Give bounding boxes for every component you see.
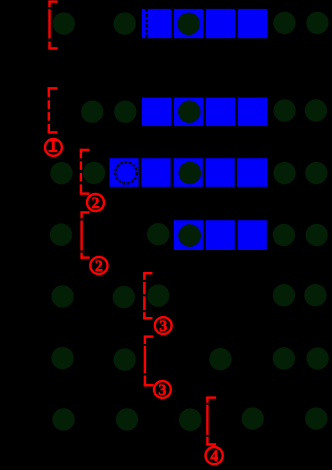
bracket B7 top tick [206, 396, 216, 398]
row 5 node c2 [113, 286, 135, 308]
bracket B1 vertical [48, 1, 50, 50]
bracket B1 top tick [48, 0, 57, 2]
bracket B6 vertical [144, 337, 146, 387]
marker 1 digit top bar [49, 140, 57, 142]
svg-text:3: 3 [158, 382, 166, 399]
bracket B3 vertical dashed [80, 150, 82, 195]
row 6 node c5 [209, 348, 231, 370]
bracket B6 bottom tick [144, 384, 154, 386]
bracket B4 top tick [80, 211, 89, 213]
row 3 window cell c4 [174, 158, 203, 187]
row 3 node c0 [50, 162, 72, 184]
row 7 node c8 [305, 407, 327, 429]
row 2 window cell c5 [206, 98, 235, 127]
row 1 node c0 [53, 12, 75, 34]
row 1 window cell c5 [206, 9, 235, 38]
row 3 window cell c6 [237, 158, 267, 187]
row 5 node c7 [273, 284, 295, 306]
row 6 node c0 [51, 347, 73, 369]
row 3 node c8 [305, 162, 327, 184]
row 5 node c3 [147, 284, 169, 306]
row 5 node c0 [51, 285, 73, 307]
row 4 node c7 [273, 224, 295, 246]
row 4 node c0 [50, 223, 72, 245]
row 3 window cell c5 [206, 158, 235, 187]
row 1 window cell c3 [142, 9, 171, 38]
bracket B2 vertical dashed [48, 88, 50, 133]
row 4 node c4 [178, 224, 201, 247]
svg-text:2: 2 [92, 195, 100, 212]
row 2 window cell c3 [142, 98, 171, 127]
row 3 node c7 [273, 162, 295, 184]
row 2 window cell c6 [238, 98, 267, 127]
bracket B4 bottom tick [80, 256, 89, 258]
row 1 node c7 [273, 12, 295, 34]
marker 1 circle [45, 139, 62, 156]
row 4 window cell c4 [174, 220, 203, 250]
row 7 node c4 [179, 408, 202, 431]
marker 1 digit stem [52, 140, 55, 151]
bracket B7 bottom tick [206, 443, 216, 445]
bracket B7 vertical [206, 398, 208, 446]
marker 1 digit bottom bar [49, 150, 58, 152]
marker 4 circle [206, 447, 223, 464]
row 4 window cell c5 [206, 220, 235, 250]
row 3 window cell c3 [141, 158, 170, 187]
bracket B5 bottom tick [143, 317, 152, 319]
row 3 node c1 [83, 162, 105, 184]
row 6 node c2 [114, 348, 136, 370]
bracket B5 top tick [143, 272, 152, 274]
row 6 node c7 [273, 347, 295, 369]
row 1 node c8 [306, 12, 328, 34]
row 2 node c2 [114, 101, 136, 123]
marker 2a circle [87, 194, 104, 211]
row 3 window cell c2 [109, 158, 138, 187]
row 7 node c6 [242, 407, 264, 429]
bracket B4 vertical [80, 212, 82, 258]
bracket B2 top tick [48, 87, 58, 89]
marker 2b circle [90, 257, 107, 274]
row 4 node c3 [147, 223, 169, 245]
row 1 node c2 [114, 12, 136, 34]
bracket B6 top tick [144, 335, 154, 337]
bracket B3 bottom tick [80, 192, 90, 194]
marker 3b circle [154, 381, 171, 398]
row 2 node c4 [178, 100, 201, 123]
row 1 node c4 [177, 12, 200, 35]
row 2 window cell c4 [174, 98, 203, 127]
row 4 window cell c6 [238, 220, 267, 250]
row 7 node c2 [116, 408, 138, 430]
row 6 node c8 [306, 347, 328, 369]
bracket B1 bottom tick [48, 47, 57, 49]
bracket B2 bottom tick [48, 131, 58, 133]
row 2 node c8 [305, 99, 327, 121]
row 1 window cell c6 [238, 9, 267, 38]
svg-text:2: 2 [95, 258, 103, 275]
row 3 dashed ghost node c2 [115, 162, 136, 183]
svg-text:4: 4 [210, 448, 218, 465]
bracket B5 vertical dashed [143, 273, 145, 319]
svg-text:3: 3 [159, 318, 167, 335]
row 2 node c1 [81, 101, 103, 123]
row 4 node c8 [306, 224, 328, 246]
row 2 node c7 [273, 99, 295, 121]
row 1 dashed boundary line [145, 9, 147, 39]
row 7 node c0 [52, 408, 74, 430]
bracket B3 top tick [80, 149, 90, 151]
row 1 window cell c4 [174, 9, 203, 38]
row 5 node c8 [304, 284, 326, 306]
row 3 node c4 [179, 162, 202, 185]
marker 3a circle [155, 317, 172, 334]
